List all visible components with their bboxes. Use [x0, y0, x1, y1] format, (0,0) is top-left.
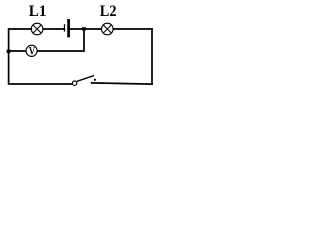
wire left to voltmeter	[9, 50, 26, 52]
wire riser up to junction	[83, 29, 85, 52]
svg-text:L1: L1	[29, 3, 47, 20]
lamp L2	[102, 23, 114, 35]
wire voltmeter to riser	[38, 50, 85, 52]
background	[0, 0, 161, 93]
svg-text:V: V	[29, 44, 36, 58]
battery (thin short plate)	[64, 24, 66, 31]
junction node dot (left)	[7, 50, 11, 53]
battery (thick long plate)	[67, 19, 70, 37]
wire bottom-right segment	[91, 83, 153, 84]
switch terminal circle	[72, 81, 76, 85]
wire bottom-left segment	[9, 83, 73, 85]
wire L2 to top-right corner	[113, 28, 153, 30]
voltmeter V	[26, 44, 37, 58]
lamp L1	[31, 23, 43, 35]
wire right side vertical	[151, 28, 153, 85]
wire L1 to battery	[43, 28, 65, 30]
svg-text:L2: L2	[100, 3, 117, 20]
switch blade	[77, 76, 94, 82]
switch contact tick	[94, 79, 96, 81]
junction node dot (top)	[82, 27, 86, 30]
wire top-left segment	[9, 28, 32, 30]
wire left side vertical	[8, 28, 10, 85]
wire battery to L2	[70, 28, 102, 30]
